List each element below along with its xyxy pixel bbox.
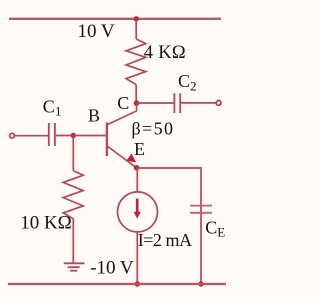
current source arrow (136, 199, 139, 214)
wire node E down to current source (136, 168, 138, 192)
capacitor CE plates (190, 205, 212, 207)
emitter arrowhead (127, 154, 135, 162)
output terminal (open circle) (216, 101, 221, 106)
capacitor C1 plates (48, 123, 50, 146)
wire C2 to output terminal (181, 102, 216, 104)
+10V supply rail (9, 18, 221, 20)
svg-text:E: E (217, 225, 225, 240)
svg-text:C: C (43, 97, 55, 117)
transistor Q1 emitter lead (108, 146, 137, 168)
svg-text:10 KΩ: 10 KΩ (20, 213, 72, 234)
svg-text:B: B (88, 105, 100, 125)
wire current source to bottom rail (136, 232, 138, 284)
wire rail to resistor R1 (135, 19, 137, 39)
svg-text:-10 V: -10 V (90, 257, 134, 278)
svg-text:E: E (134, 139, 145, 159)
resistor R2 10 KOhm zigzag (63, 171, 83, 219)
junction dot CE/bottom rail (198, 281, 203, 286)
svg-text:C: C (205, 218, 217, 238)
svg-text:C: C (117, 93, 129, 113)
svg-text:4 KΩ: 4 KΩ (144, 43, 186, 63)
resistor R1 4 KOhm zigzag (126, 39, 146, 85)
wire input terminal to capacitor C1 (15, 135, 48, 137)
-10V bottom rail (8, 283, 226, 285)
wire C1 to base junction (56, 135, 74, 137)
node E dot (134, 165, 140, 171)
node C dot (134, 100, 140, 106)
base junction dot (71, 133, 76, 138)
wire R1 to node C (135, 85, 137, 104)
svg-text:C: C (178, 71, 190, 91)
wire junction to transistor base (73, 135, 106, 137)
capacitor C2 plates (173, 93, 175, 113)
svg-text:β=50: β=50 (132, 119, 175, 139)
input terminal (open circle) (10, 133, 15, 138)
wire junction to resistor R2 (72, 136, 74, 171)
wire node E to CE branch (137, 167, 201, 169)
wire R2 to ground (72, 219, 74, 263)
junction dot top of R1 (134, 16, 139, 21)
svg-text:1: 1 (55, 104, 62, 119)
transistor Q1 base bar (106, 123, 108, 157)
transistor Q1 collector lead (108, 103, 137, 124)
current source I1 circle (118, 192, 158, 232)
junction dot current source/bottom rail (135, 281, 140, 286)
svg-text:10 V: 10 V (78, 21, 115, 42)
wire CE branch down (200, 167, 202, 284)
svg-text:2: 2 (190, 79, 197, 94)
svg-text:I=2 mA: I=2 mA (138, 230, 192, 250)
wire node C to capacitor C2 (137, 102, 174, 104)
ground symbol (64, 262, 85, 264)
